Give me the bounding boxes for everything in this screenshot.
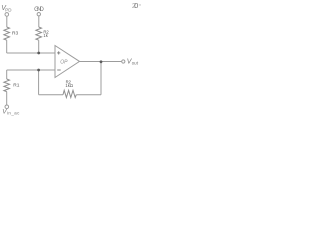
svg-text:out: out [132,61,139,66]
svg-text:OP: OP [60,59,68,65]
svg-text:PD: PD [5,7,12,12]
svg-text:GND: GND [34,7,44,13]
svg-text:R1: R1 [13,82,19,88]
svg-text:20: 20 [132,1,138,10]
svg-text:in_ac: in_ac [7,110,20,115]
svg-text:1kΩ: 1kΩ [65,83,73,88]
svg-text:R3: R3 [12,31,18,37]
